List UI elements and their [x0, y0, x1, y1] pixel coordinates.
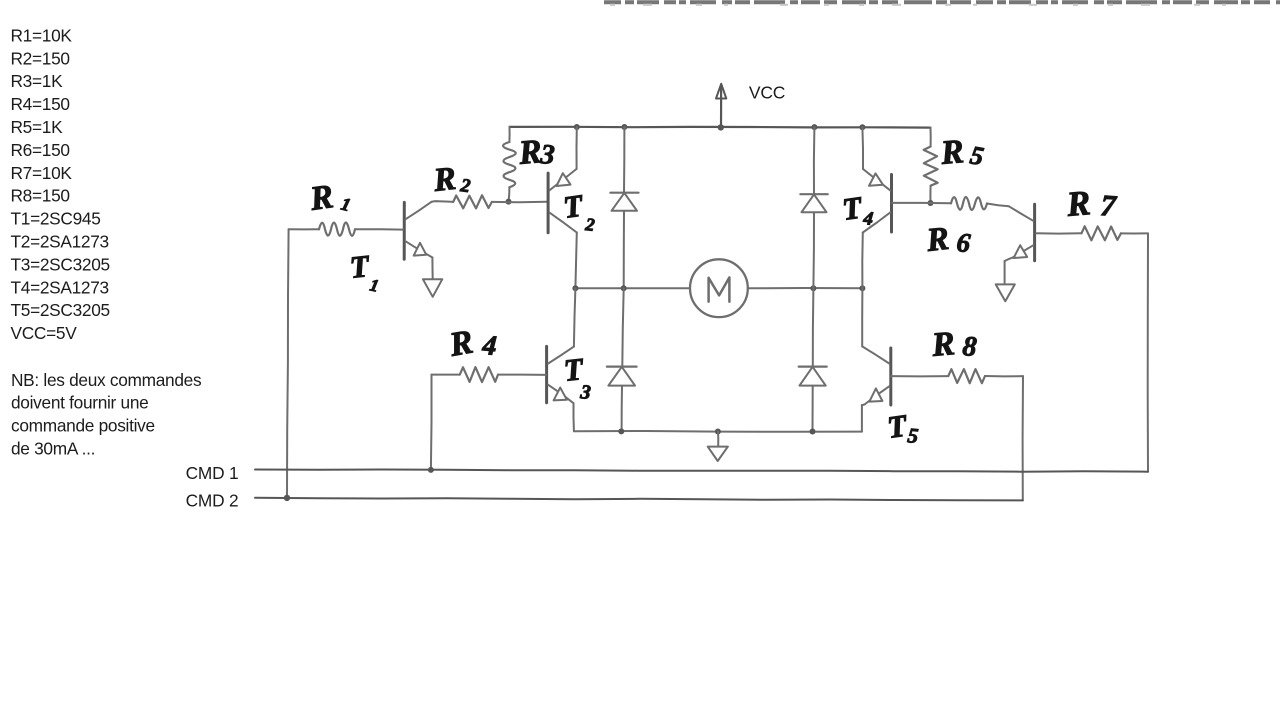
net label CMD 1: [186, 463, 239, 483]
wire: bottom emitter rail: [574, 430, 862, 433]
resistor R2: [431, 161, 547, 209]
transistor T4: [840, 169, 891, 233]
resistor R4: [432, 324, 547, 383]
wire: T3 emitter to bottom rail: [573, 403, 575, 431]
svg-text:R2=150: R2=150: [11, 48, 70, 68]
ground (T1 emitter): [423, 279, 442, 297]
junction T4 emitter / rail: [859, 124, 865, 130]
resistor R8: [891, 325, 1023, 383]
wire: T4 collector to motor node: [861, 233, 864, 289]
svg-text:2: 2: [584, 214, 596, 235]
resistor R6: [924, 197, 1009, 259]
svg-text:T3=2SC3205: T3=2SC3205: [11, 254, 110, 274]
svg-text:VCC: VCC: [749, 83, 785, 103]
junction VCC / rail: [718, 124, 724, 130]
svg-text:R: R: [1064, 183, 1092, 224]
svg-text:commande positive: commande positive: [11, 416, 155, 436]
resistor R7: [1036, 183, 1148, 240]
svg-text:R5=1K: R5=1K: [11, 117, 64, 137]
diode D1 (upper left): [610, 193, 638, 211]
wire: T4 emitter to rail: [861, 127, 864, 169]
svg-text:T5=2SC3205: T5=2SC3205: [11, 300, 110, 320]
wire: R7 to CMD1 vertical: [1147, 233, 1149, 471]
svg-text:R: R: [431, 161, 458, 199]
junction D2 / rail: [811, 124, 817, 130]
svg-text:R: R: [938, 133, 965, 172]
wire: motor line right: [748, 287, 863, 289]
component values list: [11, 25, 110, 343]
junction D3 / bottom rail: [618, 428, 624, 434]
transistor T5: [862, 346, 919, 448]
net label CMD 2: [186, 491, 239, 511]
svg-text:R8=150: R8=150: [11, 186, 70, 206]
transistor T2: [548, 169, 596, 235]
svg-text:CMD 1: CMD 1: [186, 463, 239, 483]
svg-text:8: 8: [962, 331, 978, 363]
svg-text:T1=2SC945: T1=2SC945: [11, 209, 101, 229]
svg-text:CMD 2: CMD 2: [186, 491, 239, 511]
wire: ground stem: [717, 432, 719, 447]
wire: D4 column: [812, 288, 815, 431]
transistor T3: [547, 346, 592, 404]
svg-text:4: 4: [861, 208, 874, 230]
junction D4 / bottom rail: [810, 429, 816, 435]
VCC power symbol: [716, 84, 726, 127]
junction R3 / T2 base: [506, 199, 512, 205]
svg-text:R: R: [924, 221, 951, 259]
svg-text:NB: les deux commandes: NB: les deux commandes: [11, 370, 202, 390]
svg-text:3: 3: [539, 139, 556, 171]
svg-text:R7=10K: R7=10K: [11, 163, 73, 183]
svg-text:4: 4: [481, 330, 498, 362]
motor M: [690, 259, 748, 317]
wire: D2 column: [813, 127, 814, 288]
wire: T4 base to R5 node: [892, 202, 951, 204]
wire: T2 emitter to rail: [576, 127, 578, 169]
wire: T2 collector to motor node: [575, 233, 576, 289]
transistor Q6: [1009, 204, 1035, 260]
svg-text:T4=2SA1273: T4=2SA1273: [11, 277, 109, 297]
scan artifact (cut-off text at top edge): [604, 2, 1280, 5]
svg-text:doivent fournir une: doivent fournir une: [11, 393, 148, 413]
wire: Q6 emitter to ground: [1005, 257, 1013, 283]
junction ground / bottom rail: [715, 429, 721, 435]
svg-text:R1=10K: R1=10K: [11, 25, 73, 45]
ground (bottom rail): [708, 447, 728, 461]
wire: T3 collector to motor node: [574, 288, 576, 346]
wire: motor line left: [575, 287, 690, 289]
svg-text:3: 3: [578, 381, 591, 404]
junction T2 emitter / rail: [574, 124, 580, 130]
svg-text:R4=150: R4=150: [11, 94, 70, 114]
wire: T5 emitter to bottom rail: [862, 405, 865, 432]
wire: CMD 2 bus: [255, 498, 1023, 501]
junction D2/D4 / motor line: [810, 285, 816, 291]
resistor R3: [503, 127, 556, 202]
svg-text:R3=1K: R3=1K: [11, 71, 64, 91]
transistor T1: [348, 201, 437, 295]
junction R1 / CMD2: [284, 495, 290, 501]
svg-text:de 30mA ...: de 30mA ...: [11, 439, 95, 459]
net label VCC: [749, 83, 785, 103]
diode D4 (lower right): [799, 367, 827, 386]
wire: D3 column: [622, 288, 624, 431]
junction R5 / T4 base: [928, 200, 934, 206]
svg-text:VCC=5V: VCC=5V: [11, 323, 78, 343]
junction T4/T5 collectors / motor line: [859, 285, 865, 291]
wire: D1 column: [623, 127, 626, 288]
svg-text:T2=2SA1273: T2=2SA1273: [11, 232, 109, 252]
wire: VCC top rail: [510, 126, 931, 129]
junction R4 / CMD1: [428, 467, 434, 473]
junction D1/D3 / motor line: [621, 285, 627, 291]
resistor R5: [924, 128, 986, 203]
junction D1 / rail: [621, 124, 627, 130]
wire: R4 to CMD1 vertical: [430, 375, 433, 470]
wire: R1 left / CMD2 vertical: [287, 229, 289, 498]
wire: T1 emitter to ground: [431, 258, 433, 280]
ground (Q6 emitter): [996, 284, 1015, 301]
junction T2/T3 collectors / motor line: [572, 285, 578, 291]
wire: T5 collector to motor node: [861, 288, 863, 346]
svg-text:R6=150: R6=150: [11, 140, 70, 160]
wire: CMD 1 bus: [255, 470, 1148, 472]
diode D3 (lower left): [607, 367, 637, 386]
note text: [11, 370, 202, 459]
diode D2 (upper right): [800, 194, 827, 212]
svg-text:R: R: [929, 325, 956, 364]
resistor R1: [289, 178, 403, 236]
wire: R8 to CMD2 vertical: [1022, 376, 1024, 500]
